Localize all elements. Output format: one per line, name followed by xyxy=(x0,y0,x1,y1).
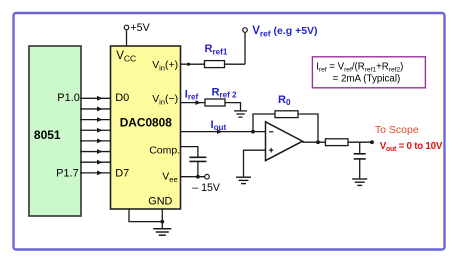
wire Rref2 to ground xyxy=(225,103,241,111)
wire non-inverting input to ground xyxy=(244,150,266,177)
data bus arrowheads xyxy=(97,96,103,175)
svg-text:8051: 8051 xyxy=(34,128,61,142)
wire Vref down to Rref1 xyxy=(244,33,246,65)
svg-text:To Scope: To Scope xyxy=(375,124,419,136)
svg-text:P1.7: P1.7 xyxy=(56,168,79,180)
svg-text:Comp.: Comp. xyxy=(149,144,180,156)
wire resistor to scope terminal xyxy=(348,141,372,143)
svg-text:Vin(+): Vin(+) xyxy=(152,60,178,72)
+5V supply terminal xyxy=(124,22,150,34)
data bus wires D0-D7 with arrows xyxy=(80,98,111,173)
ground (Rref2) xyxy=(234,111,247,117)
wire Rref1 to Vref xyxy=(225,63,246,65)
svg-text:GND: GND xyxy=(148,196,172,208)
IC U2 DAC0808 xyxy=(111,46,181,209)
wire Iout from DAC to op-amp inverting input xyxy=(181,129,266,134)
wire +5V to Vcc xyxy=(126,30,128,46)
wire op-amp output xyxy=(303,141,326,143)
junction Vee/cap xyxy=(196,175,200,179)
resistor Rref1 xyxy=(205,43,228,68)
junction Iout / feedback xyxy=(251,130,255,134)
wire Vin(+) to Rref1 xyxy=(181,63,205,65)
svg-text:– 15V: – 15V xyxy=(192,182,221,194)
wire Comp. to capacitor xyxy=(181,147,198,154)
wire R0 to output node xyxy=(298,114,318,142)
svg-text:DAC0808: DAC0808 xyxy=(120,115,173,129)
op-amp U1 xyxy=(266,122,303,161)
formula box Iref xyxy=(312,57,425,88)
capacitor compensation xyxy=(189,154,206,177)
Vref supply terminal xyxy=(243,25,318,39)
wire Vee to -15V terminal xyxy=(181,176,205,178)
ground (op-amp +) xyxy=(236,177,251,183)
wire GND pin to ground xyxy=(129,209,162,229)
label Vout = 0 to 10V xyxy=(380,141,443,153)
wire feedback up and to R0 xyxy=(253,114,275,132)
svg-text:D0: D0 xyxy=(115,92,129,104)
svg-text:D7: D7 xyxy=(115,168,129,180)
resistor output series xyxy=(325,139,348,146)
ground (DAC GND) xyxy=(153,229,171,235)
resistor Rref2 xyxy=(205,86,237,106)
svg-text:= 2mA (Typical): = 2mA (Typical) xyxy=(333,73,401,84)
Iref current label and arrow xyxy=(185,88,199,101)
wire Vin(-) to Rref2 xyxy=(181,100,206,105)
IC 8051 xyxy=(29,46,81,216)
ground (output cap) xyxy=(352,179,367,185)
capacitor output xyxy=(354,142,366,178)
terminal -15V xyxy=(192,174,221,193)
terminal dot Vout xyxy=(370,140,374,144)
svg-text:+5V: +5V xyxy=(131,22,151,34)
junction GND xyxy=(160,220,164,224)
resistor R0 xyxy=(275,94,298,118)
junction on Vin(+) wire xyxy=(187,63,190,66)
label To Scope xyxy=(375,124,419,136)
Iout label xyxy=(211,119,227,132)
svg-text:Vin(−): Vin(−) xyxy=(152,94,178,106)
junction output/feedback xyxy=(316,140,320,144)
svg-text:P1.0: P1.0 xyxy=(57,92,80,104)
